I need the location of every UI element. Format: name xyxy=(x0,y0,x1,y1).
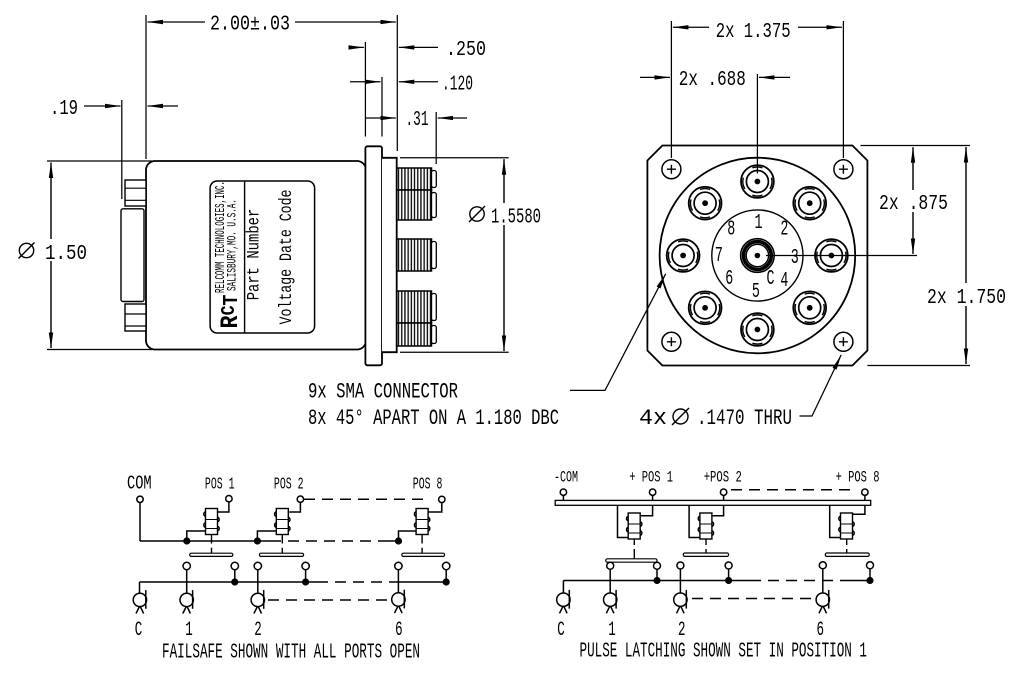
terminal COM xyxy=(137,496,143,502)
switch body (side) xyxy=(146,161,366,350)
lower bus dashed xyxy=(317,581,400,583)
lower bus right xyxy=(400,581,446,583)
svg-text:2x 1.750: 2x 1.750 xyxy=(927,287,1006,310)
svg-text:2.00±.03: 2.00±.03 xyxy=(210,14,290,37)
svg-text:6: 6 xyxy=(725,268,733,291)
svg-text:1: 1 xyxy=(608,619,616,642)
SMA common center port xyxy=(741,239,775,273)
wire POS2 right contact to bus xyxy=(305,570,307,582)
connector knurl S1b xyxy=(397,190,432,220)
dim .31 xyxy=(365,117,395,119)
svg-text:.1470 THRU: .1470 THRU xyxy=(697,406,792,431)
body circle xyxy=(660,158,856,354)
mounting flange (side) xyxy=(365,146,382,365)
svg-text:Voltage Date Code: Voltage Date Code xyxy=(277,190,297,325)
coil to armature POS1 xyxy=(211,535,213,554)
product label plate xyxy=(210,181,315,333)
svg-text:+ POS 1: + POS 1 xyxy=(629,469,673,487)
wire POS2 terminal to coil xyxy=(289,502,300,512)
wire right contact POS1 to bus xyxy=(656,569,658,580)
svg-text:POS 8: POS 8 xyxy=(413,476,443,495)
SMA port 4 xyxy=(793,291,826,324)
wire contact6 to rotor6 xyxy=(397,570,399,593)
svg-text:+POS 2: +POS 2 xyxy=(704,469,742,487)
rear cover plate xyxy=(121,209,144,302)
lower bus dashed xyxy=(750,580,846,582)
svg-text:8: 8 xyxy=(727,219,735,242)
SMA port 5 xyxy=(741,313,774,346)
svg-text:6: 6 xyxy=(395,619,403,642)
center lines xyxy=(757,74,917,256)
wire contact2 to rotor2 xyxy=(257,570,259,593)
contact circle POS8 left xyxy=(819,562,826,569)
svg-text:9x SMA CONNECTOR: 9x SMA CONNECTOR xyxy=(308,380,458,405)
leader 4x hole xyxy=(800,355,842,416)
coil POS2 xyxy=(698,513,713,539)
svg-text:.31: .31 xyxy=(406,109,429,132)
svg-text:2: 2 xyxy=(254,619,262,642)
rotor dashed link 2-6 xyxy=(692,598,815,600)
wire right contact POS8 to bus xyxy=(869,569,871,581)
wire POS8 terminal to coil xyxy=(428,503,442,512)
diameter symbol 1.5580 xyxy=(469,206,485,222)
SMA port 8 xyxy=(689,187,722,220)
junction dot lower POS8 xyxy=(443,578,450,585)
upper bus wire xyxy=(140,540,270,542)
coil to armature POS2 xyxy=(705,539,707,553)
svg-text:1.5580: 1.5580 xyxy=(491,207,541,230)
svg-text:+ POS 8: + POS 8 xyxy=(836,469,880,487)
svg-text:2x .875: 2x .875 xyxy=(879,193,948,216)
svg-text:-COM: -COM xyxy=(554,469,578,487)
connector knurl S1a xyxy=(397,168,432,190)
svg-text:4: 4 xyxy=(780,270,788,293)
armature bar POS8 open xyxy=(825,553,869,556)
terminal +POS1 xyxy=(649,489,655,495)
svg-text:POS 2: POS 2 xyxy=(274,476,304,495)
terminal +POS8 xyxy=(862,489,868,495)
dim .120 xyxy=(350,81,381,83)
dim dia 1.50 xyxy=(47,160,152,162)
contact circle POS2 right xyxy=(302,562,309,569)
contact circle POS2 right xyxy=(725,562,732,569)
svg-text:Part Number: Part Number xyxy=(245,209,265,301)
connector knurl S3b xyxy=(397,323,432,346)
SMA port 6 xyxy=(689,291,722,324)
armature bar POS2 open xyxy=(683,553,728,556)
wire contact1 to rotor1 xyxy=(186,570,188,593)
svg-text:7: 7 xyxy=(715,245,723,268)
junction dot POS8 xyxy=(395,537,402,544)
coil to armature POS1 xyxy=(633,539,635,559)
dim 2x 1.375 xyxy=(673,26,709,28)
wire POS2 left xyxy=(689,505,699,537)
dim 2x .688 xyxy=(640,76,670,78)
rotor dashed link 2-6 xyxy=(268,599,391,601)
contact circle POS2 left xyxy=(677,562,684,569)
svg-text:.250: .250 xyxy=(446,39,486,62)
armature bar POS2 xyxy=(259,553,303,556)
terminal POS 8 xyxy=(439,496,445,502)
dim 2x .875 xyxy=(912,147,914,254)
contact circle POS1 right xyxy=(231,562,238,569)
contact circle POS2 left xyxy=(254,562,261,569)
dim .19 xyxy=(84,105,121,107)
rear connector bump lower xyxy=(125,304,146,331)
junction dot POS2 xyxy=(254,537,261,544)
wire POS8 right xyxy=(853,505,865,514)
junction dot lower POS2 xyxy=(302,578,309,585)
dashed terminal link POS2-POS8 xyxy=(304,498,430,500)
upper bus wire right xyxy=(388,540,399,542)
inner boss circle xyxy=(712,210,803,301)
coil POS1 xyxy=(626,513,641,539)
wire POS1 left xyxy=(618,505,628,537)
horizontal center line xyxy=(766,255,917,257)
rotor 6 xyxy=(392,590,405,613)
svg-text:2x .688: 2x .688 xyxy=(679,69,746,92)
wire junction to coil POS8 xyxy=(399,531,417,541)
wire POS1 terminal to coil xyxy=(218,502,229,512)
terminal +POS2 xyxy=(720,489,726,495)
svg-text:4x: 4x xyxy=(639,406,667,431)
svg-text:2: 2 xyxy=(780,219,788,242)
contact circle POS1 right xyxy=(654,562,661,569)
rotor 1 xyxy=(180,590,193,613)
lower bus drop to rotor C xyxy=(139,582,141,593)
screw hole top-left xyxy=(662,160,681,179)
screw hole bottom-right xyxy=(834,332,853,351)
rotor 2 xyxy=(251,590,264,613)
connector panel (side) xyxy=(382,158,397,352)
screw hole top-right xyxy=(834,160,853,179)
svg-text:PULSE LATCHING SHOWN SET IN PO: PULSE LATCHING SHOWN SET IN POSITION 1 xyxy=(580,641,868,664)
supply bus bar xyxy=(555,500,871,505)
wire junction to coil POS2 xyxy=(257,531,276,541)
svg-text:2: 2 xyxy=(678,619,686,642)
svg-text:5: 5 xyxy=(752,281,760,304)
wire contact to rotor 2 xyxy=(679,569,681,593)
junction dot lower POS2 xyxy=(725,577,732,584)
coil to armature POS8 xyxy=(846,539,848,553)
contact circle POS1 left xyxy=(183,562,190,569)
dimensions front view xyxy=(570,21,970,416)
rotor C xyxy=(557,590,570,613)
SMA port 3 xyxy=(815,239,848,272)
coil to armature POS2 xyxy=(281,535,283,554)
lower bus wire xyxy=(140,581,318,583)
wire contact to rotor 1 xyxy=(609,569,611,593)
wire right contact POS2 to bus xyxy=(728,569,730,581)
svg-text:1.50: 1.50 xyxy=(45,243,87,266)
svg-text:3: 3 xyxy=(791,247,799,270)
dim text 2x .875 xyxy=(876,190,951,216)
dim .250 xyxy=(349,46,364,48)
extension lines xyxy=(861,145,971,147)
SMA port 7 xyxy=(667,239,700,272)
terminal stubs xyxy=(563,495,865,500)
rear connector bump upper xyxy=(125,180,146,206)
junction dot lower POS1 xyxy=(231,578,238,585)
terminal POS 2 xyxy=(297,496,303,502)
coil POS8 xyxy=(414,509,429,535)
screw hole bottom-left xyxy=(662,332,681,351)
terminal POS 1 xyxy=(226,496,232,502)
coil to armature POS8 xyxy=(421,535,423,554)
dim dia 1.5580 xyxy=(400,157,509,159)
wire contact to rotor 6 xyxy=(822,569,824,593)
dim text 2x 1.750 xyxy=(924,283,1009,310)
mounting plate (front, chamfered square) xyxy=(647,146,867,366)
rotor 6 xyxy=(816,590,829,613)
lower bus drop to rotor C xyxy=(562,581,564,593)
svg-text:COM: COM xyxy=(127,473,152,495)
rotor C xyxy=(133,590,146,613)
coil POS1 xyxy=(204,509,219,535)
armature bar POS1 closed xyxy=(606,559,657,562)
dashed terminal link POS2-POS8 xyxy=(731,489,857,491)
svg-text:6: 6 xyxy=(816,619,824,642)
SMA port 1 xyxy=(741,165,774,198)
coil POS8 xyxy=(839,513,854,539)
diameter symbol 1.50 xyxy=(19,243,35,259)
svg-text:2x 1.375: 2x 1.375 xyxy=(716,21,791,44)
armature bar POS1 xyxy=(190,553,233,556)
wire POS2 right xyxy=(712,505,723,516)
rotor 2 xyxy=(674,590,687,613)
svg-text:1: 1 xyxy=(755,212,763,235)
contact circle POS8 right xyxy=(867,562,874,569)
wire POS8 right contact to bus xyxy=(445,570,447,582)
svg-text:C: C xyxy=(557,619,565,642)
terminal -COM xyxy=(560,489,566,495)
SMA port 2 xyxy=(793,187,826,220)
junction dot lower POS8 xyxy=(866,577,873,584)
svg-text:POS 1: POS 1 xyxy=(205,476,235,495)
contact circle POS1 left xyxy=(607,562,614,569)
SMA connector knurls (side) xyxy=(397,168,437,346)
wire POS1 right contact to bus xyxy=(234,570,236,582)
svg-text:FAILSAFE SHOWN WITH ALL PORTS: FAILSAFE SHOWN WITH ALL PORTS OPEN xyxy=(162,642,420,665)
wire POS1 right xyxy=(641,505,653,516)
svg-text:1: 1 xyxy=(185,619,193,642)
coil POS2 xyxy=(275,509,290,535)
leader 9x SMA connector xyxy=(570,274,666,391)
svg-text:.19: .19 xyxy=(50,98,78,121)
wire POS8 left xyxy=(830,505,840,537)
junction dot POS1 xyxy=(183,537,190,544)
connector knurl S3a xyxy=(397,291,432,323)
connector knurl S2 xyxy=(397,239,432,271)
armature bar POS8 xyxy=(402,553,445,556)
contact circle POS8 left xyxy=(395,562,402,569)
dim 2x 1.750 xyxy=(965,147,967,364)
svg-text:C: C xyxy=(767,268,775,291)
vertical center line xyxy=(756,74,758,174)
contact circle POS8 right xyxy=(443,562,450,569)
lower bus wire xyxy=(563,580,750,582)
lower bus right xyxy=(846,580,870,582)
svg-text:8x 45° APART ON A 1.180 DBC: 8x 45° APART ON A 1.180 DBC xyxy=(308,406,559,431)
upper bus dashed xyxy=(270,540,388,542)
wire COM down xyxy=(139,503,141,542)
svg-text:C: C xyxy=(135,619,143,642)
svg-text:SALISBURY,MO. U.S.A.: SALISBURY,MO. U.S.A. xyxy=(226,199,240,291)
dim 2.00±.03 xyxy=(148,21,206,23)
junction dot lower POS1 xyxy=(653,577,660,584)
wire junction to coil POS1 xyxy=(187,531,206,541)
dimensions of side view xyxy=(47,15,509,352)
svg-text:.120: .120 xyxy=(442,74,473,97)
rotor 1 xyxy=(604,590,617,613)
